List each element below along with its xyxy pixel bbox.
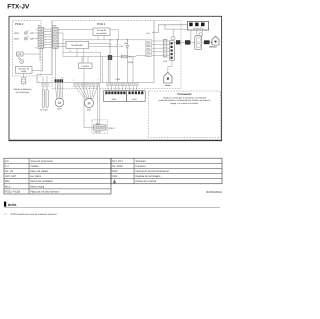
svg-text:Interruptor de funcionamiento: Interruptor de funcionamiento [135,170,169,173]
connector below receptor [22,78,26,84]
thermistor R1T [42,89,44,107]
LED H2P [14,36,35,41]
svg-text:7: 7 [98,79,99,82]
svg-text:Protección a tierra: Protección a tierra [135,180,157,183]
svg-text:M1F: M1F [87,108,92,111]
svg-text:1(L) 2(N) 3(T): 1(L) 2(N) 3(T) [193,27,204,30]
svg-text:H1~H2: H1~H2 [5,170,14,173]
legend table right [111,158,222,184]
svg-text:Conector: Conector [135,165,146,168]
PCB1 dashed enclosure [52,20,181,88]
wire to S21 verticals [97,83,99,125]
signal receptor box [16,66,33,73]
motor M1F [84,98,93,107]
svg-text:PCB3 muestra en caso de conexi: PCB3 muestra en caso de conexión opciona… [11,213,57,216]
svg-text:Placa de circuito impreso: Placa de circuito impreso [30,190,60,193]
connector S27 [36,25,44,50]
wire bus y40 [63,36,146,40]
caution box [149,91,221,138]
wire receptor down [23,73,25,77]
wire drops to S402 [109,57,134,83]
wire B-C [190,41,194,43]
photodiode D1 [18,57,24,64]
svg-text:M1S: M1S [57,108,62,111]
wire harness S27 to S26 [44,28,53,30]
connector S1 pins [73,79,99,87]
connector pin row S402/S401 [107,83,138,91]
fuse FU 3,15A [121,55,133,64]
svg-text:S402: S402 [116,78,120,81]
svg-text:1: 1 [73,79,74,82]
housing S402 [103,90,126,101]
svg-text:LED1: LED1 [14,32,20,35]
svg-text:LED2: LED2 [14,38,20,41]
svg-text:L/N: L/N [146,32,150,35]
ground screw circle [171,36,175,40]
motor M1S [55,98,64,107]
wire C-D [202,41,204,43]
house icon earth [164,72,172,83]
nota bar [4,202,6,207]
svg-text:Circuito de: Circuito de [97,29,107,32]
svg-text:Toma de protección: Toma de protección [30,160,53,163]
plug D [204,40,210,44]
svg-text:Opción: Opción [95,131,101,134]
svg-text:Rectificador: Rectificador [71,44,83,47]
svg-text:S1W: S1W [112,170,118,173]
wire sq1 down [190,30,192,40]
svg-text:DB1: DB1 [124,42,128,45]
wire across boundary [180,41,185,43]
svg-text:X1A: X1A [163,60,167,63]
svg-text:1: 1 [36,28,37,31]
plug A [176,40,180,44]
svg-text:Motor del ventilador: Motor del ventilador [30,180,53,183]
connector S21 [94,125,106,130]
ground symbol in table [113,180,116,184]
rectifier box [66,41,89,48]
wire regulator legs [82,57,88,83]
svg-text:1: 1 [54,76,55,79]
wire rectifier out [89,44,118,47]
svg-text:Mando a distancia: Mando a distancia [14,88,33,91]
svg-text:Motor swing: Motor swing [30,185,45,188]
svg-text:Luz piloto: Luz piloto [30,175,42,178]
wires to swing motor [55,82,56,98]
regulator LM7805 box [79,63,93,69]
wire circuito right [110,30,119,40]
svg-text:Receptor de: Receptor de [18,67,30,70]
connector S32 pins [42,75,49,86]
wire LED2 stub [35,38,38,40]
svg-text:H1P, H2P: H1P, H2P [5,175,16,178]
svg-text:por infrarrojos: por infrarrojos [16,91,30,94]
svg-text:Termistor: Termistor [135,160,146,163]
svg-text:CH1: CH1 [120,45,124,48]
svg-text:PCB 3: PCB 3 [108,127,115,130]
component C58 box [17,52,24,56]
svg-text:FG: FG [5,160,9,163]
wire bus y52 [63,52,102,82]
plug B [185,40,190,44]
wire bus y56 fuse line [63,55,146,56]
connector X1A [163,39,167,63]
wire tags to X1A [152,40,164,42]
svg-text:FU: FU [129,56,132,59]
svg-text:PCB 2: PCB 2 [15,22,24,26]
ground screw under X1M [199,33,203,37]
svg-text:PCB1~PCB3: PCB1~PCB3 [5,190,21,193]
svg-text:Fusible: Fusible [30,165,39,168]
svg-text:R1T, R2T: R1T, R2T [112,160,123,163]
svg-text:8: 8 [36,47,37,50]
svg-text:X1M: X1M [112,175,117,178]
wires to fan motor [75,86,85,99]
svg-text:señal: señal [21,70,26,73]
svg-text:Mazo de cables: Mazo de cables [30,170,49,173]
housing connector [169,41,174,61]
svg-text:exterior: exterior [209,46,217,49]
svg-text:tierra: tierra [165,84,171,87]
svg-text:PCB 1: PCB 1 [97,22,106,26]
house icon outdoor [212,36,219,45]
wire sq2 down [196,30,198,36]
capacitor C2 [116,40,123,57]
housing S401 [127,90,146,101]
svg-text:M: M [58,101,61,105]
svg-text:Tenga en cuenta que la operaci: Tenga en cuenta que la operación se rein… [163,96,207,99]
svg-text:S1~S902: S1~S902 [112,165,123,168]
svg-text:transmisión: transmisión [96,32,106,35]
svg-text:FTX-JV: FTX-JV [7,3,30,10]
svg-text:M: M [88,101,91,105]
svg-text:Precaución: Precaución [178,93,192,96]
svg-text:5: 5 [62,76,63,79]
svg-text:Regleta de terminales: Regleta de terminales [135,175,161,178]
wire to S21 left [84,83,94,128]
tag labels column [146,40,152,58]
PCB2 dashed outline [13,20,42,76]
relay K1 [108,55,112,60]
svg-text:M1S: M1S [5,185,11,188]
PCB3 dashed outline [92,120,108,133]
legend table left [4,158,111,194]
coil L1 loop [152,25,188,33]
diode DB1 [124,40,129,57]
svg-text:apaga y se vuelve a encender.: apaga y se vuelve a encender. [170,102,199,105]
wire dashed to remote [23,84,25,87]
wire S26 bottom down [55,48,57,79]
thermistor R2T [46,89,48,107]
LED H1P [14,30,35,35]
svg-text:LM7805: LM7805 [82,65,90,68]
nota rule [4,206,220,208]
wire S26 to transmission [58,28,93,30]
wire sq3 down [202,30,204,33]
junction node dots [109,39,110,40]
capacitor C1 [109,40,112,57]
svg-text:3,15A: 3,15A [128,61,134,64]
arrow mark [210,41,212,43]
svg-text:FU: FU [5,165,9,168]
svg-text:H2P: H2P [30,38,35,41]
connector S26 [52,25,58,49]
connector S42 black pins [54,76,64,82]
terminal block X1M [188,21,209,30]
wire rectifier bottom drops [70,49,84,63]
svg-text:3D00940049: 3D00940049 [206,190,222,194]
svg-text:R1T R2T: R1T R2T [40,108,48,111]
svg-text:automáticamente si la alimenta: automáticamente si la alimentación eléct… [159,99,212,102]
svg-text:NOTA: NOTA [8,203,17,207]
svg-text:M1F: M1F [5,180,11,183]
PCB1 solid boundary [37,21,154,83]
svg-text:H1P: H1P [30,32,35,35]
frame border [9,16,222,140]
transmission circuit box [93,28,110,36]
wire S26 branch down [58,33,66,57]
infrared remote label [14,88,33,94]
wire screw up [172,29,174,36]
frame bottom heavy line [9,139,222,141]
wire to thermistors [43,86,47,89]
housing C [195,36,202,50]
wire housing to earth house [168,60,172,72]
wire C58 to S27 [23,48,43,70]
wire housing out [174,41,176,43]
wire LED1 stub [35,32,38,34]
wires X1A to housing [167,40,169,42]
